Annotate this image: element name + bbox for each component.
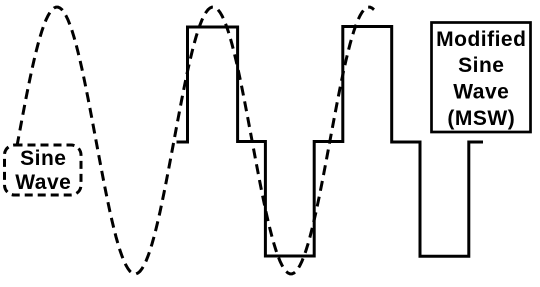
- wire modified sine wave (solid stepped waveform): [177, 27, 484, 257]
- svg-text:Wave: Wave: [453, 81, 509, 104]
- svg-text:Sine: Sine: [458, 54, 504, 77]
- svg-text:Wave: Wave: [15, 171, 71, 194]
- node Sine Wave label box (dashed rounded rect): [5, 145, 82, 195]
- sine wave curve (dashed): [14, 7, 374, 274]
- svg-text:Sine: Sine: [20, 147, 66, 170]
- node Modified Sine Wave (MSW) label box: [432, 23, 531, 133]
- svg-text:Modified: Modified: [436, 28, 526, 51]
- svg-text:(MSW): (MSW): [447, 107, 515, 130]
